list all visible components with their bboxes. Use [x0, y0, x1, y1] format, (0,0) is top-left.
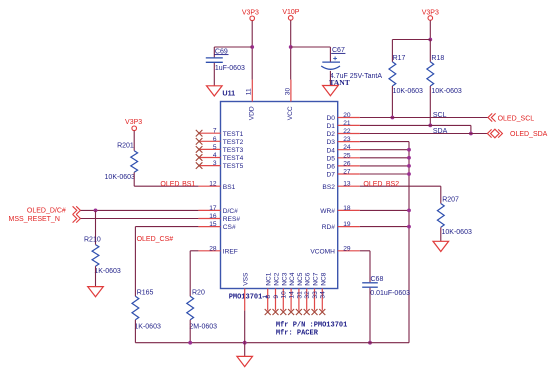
wire VSS rail	[135, 342, 409, 344]
wire R165 bottom lead	[134, 320, 136, 343]
pin 23 D3 stub	[338, 141, 360, 143]
wire C68 top lead	[369, 251, 371, 282]
svg-text:BS2: BS2	[322, 184, 335, 191]
label C69 underline	[214, 54, 228, 56]
svg-text:IREF: IREF	[223, 248, 238, 255]
svg-text:TEST5: TEST5	[223, 163, 244, 170]
svg-text:34: 34	[320, 291, 327, 299]
svg-text:TEST4: TEST4	[223, 155, 244, 162]
svg-text:NC5: NC5	[297, 272, 304, 286]
junction V3P3/C69	[250, 45, 254, 49]
no-connect X on TEST3	[196, 146, 203, 153]
junction WR#/bundle	[407, 209, 411, 213]
svg-text:11: 11	[246, 88, 253, 95]
ground below C67	[323, 86, 339, 96]
no-connect X on NC8	[319, 309, 325, 315]
svg-text:9: 9	[273, 295, 280, 299]
wire R201 top lead	[133, 131, 135, 151]
resistor R18	[427, 62, 434, 86]
svg-text:25: 25	[343, 152, 351, 159]
svg-text:D/C#: D/C#	[223, 208, 238, 215]
pin 3 TEST5 stub	[198, 165, 220, 167]
svg-text:13: 13	[343, 181, 351, 188]
pin 10 NC3 stub	[282, 289, 284, 311]
resistor R201	[131, 151, 138, 173]
svg-text:15: 15	[209, 221, 217, 228]
pin 25 D5 stub	[338, 157, 360, 159]
no-connect X on TEST1	[196, 130, 203, 137]
svg-text:10: 10	[281, 291, 288, 299]
pin 5 TEST3 stub	[198, 148, 220, 150]
svg-text:R20: R20	[192, 290, 205, 297]
svg-text:OLED_SDA: OLED_SDA	[510, 131, 548, 138]
no-connect X on NC2	[273, 309, 279, 315]
wire IREF down to R20	[189, 251, 191, 296]
no-connect X on NC6	[304, 309, 310, 315]
junction R17/SCL	[391, 116, 395, 120]
junction D1/D2 tie on SDA	[469, 132, 473, 136]
wire RD#	[360, 226, 409, 228]
pin 1 VSS stub	[244, 289, 246, 311]
wire VCOMH	[360, 250, 370, 252]
ground below C69	[207, 86, 223, 96]
svg-text:RD#: RD#	[322, 224, 336, 231]
svg-text:VCOMH: VCOMH	[310, 248, 335, 255]
svg-text:1K-0603: 1K-0603	[134, 323, 161, 330]
pin 8 NC1 stub	[267, 289, 269, 311]
svg-text:BS1: BS1	[223, 184, 236, 191]
junction RD#/bundle	[407, 225, 411, 229]
svg-text:TEST1: TEST1	[223, 131, 244, 138]
wire V3P3 down to VDD pin	[251, 21, 253, 80]
junction D4/bundle	[407, 148, 411, 152]
wire OLED_D/C# to pin 17	[81, 209, 199, 211]
svg-text:33: 33	[312, 291, 319, 299]
svg-text:OLEDBS1: OLEDBS1	[160, 181, 195, 188]
svg-text:SDA: SDA	[433, 128, 448, 135]
svg-text:D7: D7	[326, 172, 335, 179]
wire V3P3 down	[429, 20, 431, 39]
svg-text:NC2: NC2	[274, 272, 281, 286]
svg-text:C68: C68	[371, 276, 384, 283]
junction D7/bundle	[407, 172, 411, 176]
svg-text:D0: D0	[326, 115, 335, 122]
wire D7	[360, 173, 409, 175]
wire D1 to tie point	[360, 124, 471, 126]
power symbol V3P3 (BS1 pullup)	[125, 119, 142, 130]
svg-text:NC3: NC3	[281, 272, 288, 286]
svg-text:NC1: NC1	[266, 272, 273, 286]
wire IREF	[190, 250, 198, 252]
no-connect X on NC7	[312, 309, 318, 315]
svg-text:4: 4	[213, 152, 217, 159]
svg-text:16: 16	[209, 213, 217, 220]
svg-text:19: 19	[343, 221, 351, 228]
svg-text:22: 22	[343, 128, 351, 135]
junction V10P/C67	[289, 45, 293, 49]
svg-text:D2: D2	[326, 131, 335, 138]
wire C69 top lead	[213, 47, 215, 57]
junction C68/VSS rail	[368, 341, 372, 345]
svg-text:10K-0603: 10K-0603	[442, 229, 472, 236]
pin 32 NC6 stub	[306, 289, 308, 311]
ground below R210	[88, 287, 104, 297]
wire OLED_BS1	[134, 185, 198, 187]
svg-text:Mfr P/N :PMO13701: Mfr P/N :PMO13701	[276, 322, 347, 330]
svg-text:V10P: V10P	[282, 9, 299, 16]
no-connect X on NC3	[280, 309, 286, 315]
svg-text:TEST3: TEST3	[223, 147, 244, 154]
svg-text:OLED_SCL: OLED_SCL	[498, 116, 535, 123]
svg-text:1K-0603: 1K-0603	[94, 268, 121, 275]
pin 31 NC5 stub	[298, 289, 300, 311]
svg-text:SCL: SCL	[433, 112, 447, 119]
pin 24 D4 stub	[338, 149, 360, 151]
pin 34 NC8 stub	[321, 289, 323, 311]
svg-text:0.01uF-0603: 0.01uF-0603	[370, 290, 410, 297]
svg-text:VSS: VSS	[242, 272, 249, 286]
svg-text:U11: U11	[222, 89, 235, 98]
wire R18 bottom lead	[429, 86, 431, 125]
pin 19 RD# stub	[338, 226, 360, 228]
svg-text:26: 26	[343, 160, 351, 167]
wire D4	[360, 149, 409, 151]
wire R20 bottom lead	[189, 320, 191, 343]
wire D1-D2 tie	[470, 125, 472, 133]
svg-text:12: 12	[209, 181, 217, 188]
svg-text:R210: R210	[84, 237, 101, 244]
wire C68 bottom lead	[369, 288, 371, 343]
pin 26 D6 stub	[338, 165, 360, 167]
wire MSS_RESET_N to pin 16	[81, 218, 199, 220]
svg-text:NC8: NC8	[320, 272, 327, 286]
resistor R20	[187, 296, 194, 320]
ground VSS rail	[237, 356, 253, 366]
wire R18 top lead	[429, 40, 431, 62]
resistor R210	[92, 245, 99, 267]
svg-text:27: 27	[343, 169, 351, 176]
svg-text:3: 3	[213, 160, 217, 167]
svg-text:R18: R18	[431, 55, 444, 62]
pin 15 CS# stub	[198, 226, 220, 228]
junction R18/D1	[428, 124, 432, 128]
port OLED_SDA (bidirectional diamond)	[487, 129, 502, 137]
no-connect X on TEST5	[196, 162, 203, 169]
power symbol V3P3 (pullup rail)	[422, 9, 439, 20]
svg-text:R165: R165	[137, 290, 154, 297]
pin 16 RES# stub	[198, 218, 220, 220]
svg-text:TEST2: TEST2	[223, 139, 244, 146]
no-connect X on NC4	[288, 309, 294, 315]
svg-text:28: 28	[209, 245, 217, 252]
pin 20 D0 stub	[338, 117, 360, 119]
wire D3	[360, 141, 409, 143]
no-connect X on NC1	[265, 309, 271, 315]
svg-text:CS#: CS#	[223, 224, 236, 231]
wire OLED_BS2	[360, 185, 441, 187]
wire C67 bottom lead	[329, 71, 331, 86]
svg-text:18: 18	[343, 205, 351, 212]
svg-text:OLED_D/C#: OLED_D/C#	[27, 208, 66, 215]
port OLED_SCL (input chevrons)	[488, 113, 496, 121]
svg-text:OLEDBS2: OLEDBS2	[363, 181, 399, 188]
junction VSS pin/rail	[243, 341, 247, 345]
junction D5/bundle	[407, 156, 411, 160]
pin 22 D2 stub	[338, 133, 360, 135]
svg-text:NC6: NC6	[305, 272, 312, 286]
svg-text:30: 30	[284, 88, 291, 96]
wire SCL (D0)	[360, 117, 488, 119]
svg-text:NC4: NC4	[289, 272, 296, 286]
wire OLED_CS# to pin 15	[135, 226, 198, 228]
svg-text:2M-0603: 2M-0603	[189, 323, 217, 330]
wire R207 top lead	[440, 186, 442, 203]
wire SDA (D2)	[360, 133, 487, 135]
wire V10P down to VCC pin	[290, 20, 292, 79]
pin 7 TEST1 stub	[198, 132, 220, 134]
svg-text:Mfr: PACER: Mfr: PACER	[276, 329, 319, 337]
wire D5	[360, 157, 409, 159]
IC U11 body	[221, 102, 338, 289]
svg-text:24: 24	[343, 144, 351, 151]
svg-text:10K-0603: 10K-0603	[393, 88, 423, 95]
svg-text:RES#: RES#	[223, 216, 241, 223]
svg-text:1uF-0603: 1uF-0603	[215, 65, 245, 72]
wire to C69	[214, 46, 252, 48]
pin 14 NC4 stub	[290, 289, 292, 311]
svg-text:32: 32	[304, 291, 311, 299]
svg-text:MSS_RESET_N: MSS_RESET_N	[9, 216, 60, 223]
svg-text:V3P3: V3P3	[422, 9, 439, 16]
no-connect X on TEST2	[196, 138, 203, 145]
svg-text:10K-0603: 10K-0603	[105, 174, 135, 181]
power symbol V3P3 (VDD rail)	[242, 9, 259, 20]
capacitor C68	[362, 283, 378, 287]
junction R20/rail	[188, 341, 192, 345]
svg-text:5: 5	[213, 144, 217, 151]
wire C67 top lead	[329, 47, 331, 62]
svg-text:10K-0603: 10K-0603	[431, 88, 461, 95]
svg-text:17: 17	[209, 205, 217, 212]
svg-text:R17: R17	[393, 55, 406, 62]
pin 4 TEST4 stub	[198, 157, 220, 159]
svg-text:29: 29	[343, 245, 351, 252]
svg-text:6: 6	[213, 136, 217, 143]
wire rail to ground	[244, 343, 246, 357]
wire R210 top lead	[95, 210, 97, 244]
pin 33 NC7 stub	[314, 289, 316, 311]
capacitor C67 (polarized tantalum)	[321, 57, 340, 70]
pin 29 VCOMH stub	[338, 250, 360, 252]
svg-text:D4: D4	[326, 147, 335, 154]
svg-text:V3P3: V3P3	[125, 119, 142, 126]
pin 12 BS1 stub	[198, 185, 220, 187]
svg-text:OLED_CS#: OLED_CS#	[137, 236, 174, 243]
junction R210 tap on D/C#	[94, 209, 98, 213]
pin 28 IREF stub	[198, 250, 220, 252]
port OLED_D/C# (input chevrons)	[73, 206, 81, 214]
wire OLED_CS# down to R165	[134, 227, 136, 297]
resistor R17	[389, 62, 396, 86]
no-connect X on TEST4	[196, 154, 203, 161]
svg-text:R207: R207	[442, 196, 459, 203]
resistor R165	[132, 296, 139, 320]
no-connect X on NC5	[296, 309, 302, 315]
svg-text:VCC: VCC	[287, 106, 294, 120]
pin 27 D7 stub	[338, 173, 360, 175]
svg-text:21: 21	[343, 120, 351, 127]
svg-text:31: 31	[296, 291, 303, 299]
ground below R207	[433, 241, 449, 251]
svg-text:VDD: VDD	[248, 106, 255, 120]
pin 21 D1 stub	[338, 124, 360, 126]
svg-text:D6: D6	[326, 164, 335, 171]
wire R17 bottom lead	[391, 86, 393, 118]
wire C69 bottom lead	[213, 63, 215, 86]
pin 6 TEST2 stub	[198, 140, 220, 142]
wire WR#	[360, 209, 409, 211]
power symbol V10P (VCC rail)	[282, 9, 299, 20]
svg-text:D3: D3	[326, 139, 335, 146]
wire unused-pin bundle to VSS rail	[408, 142, 410, 343]
svg-text:NC7: NC7	[313, 272, 320, 286]
wire R201 bottom lead	[133, 172, 135, 186]
wire D6	[360, 165, 409, 167]
pin 30 VCC stub	[290, 80, 292, 102]
pin 13 BS2 stub	[338, 185, 360, 187]
svg-text:D1: D1	[326, 123, 335, 130]
svg-text:WR#: WR#	[320, 208, 335, 215]
port MSS_RESET_N (input chevrons)	[73, 214, 81, 222]
svg-text:PMO13701: PMO13701	[229, 293, 263, 301]
wire to R17	[392, 39, 430, 41]
svg-text:7: 7	[213, 128, 217, 135]
svg-text:23: 23	[343, 136, 351, 143]
junction pullup split	[428, 38, 432, 42]
svg-text:8: 8	[265, 295, 272, 299]
svg-text:14: 14	[289, 291, 296, 299]
pin 18 WR# stub	[338, 209, 360, 211]
label C67 underline	[331, 52, 345, 54]
svg-text:20: 20	[343, 112, 351, 119]
junction D6/bundle	[407, 164, 411, 168]
capacitor C69	[206, 58, 223, 62]
pin 9 NC2 stub	[275, 289, 277, 311]
wire to C67	[291, 46, 331, 48]
svg-text:R201: R201	[117, 142, 134, 149]
pin 17 D/C# stub	[198, 209, 220, 211]
wire VSS pin to rail	[244, 311, 246, 343]
svg-text:D5: D5	[326, 155, 335, 162]
pin 11 VDD stub	[251, 80, 253, 102]
resistor R207	[437, 204, 444, 228]
svg-text:V3P3: V3P3	[242, 9, 259, 16]
wire R210 bottom lead	[95, 266, 97, 286]
wire R17 top lead	[391, 40, 393, 62]
wire R207 bottom lead	[440, 227, 442, 241]
